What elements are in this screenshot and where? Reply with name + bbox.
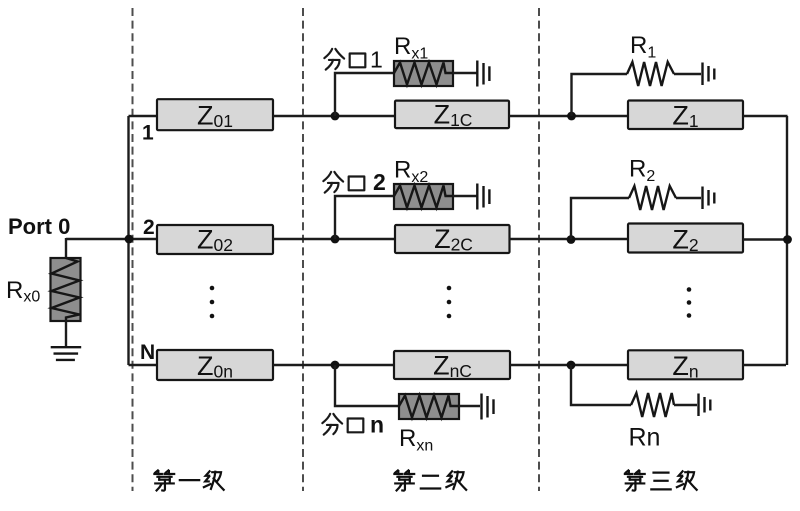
wire Z0n to node An	[273, 364, 394, 366]
ground GND Rxn	[482, 394, 494, 420]
impedance Z1C	[395, 100, 509, 131]
stage label 第一级	[154, 470, 223, 490]
svg-text:R2: R2	[629, 156, 655, 186]
resistor Rx0	[51, 258, 81, 321]
svg-text:n: n	[370, 412, 384, 438]
svg-text:Rn: Rn	[629, 424, 661, 452]
ellipsis column 2	[447, 286, 452, 319]
wire R1 to ground	[674, 73, 701, 75]
resistor Rx1	[394, 61, 453, 86]
node right bus row 2 junction	[783, 235, 792, 244]
dashed separator line 3	[538, 8, 540, 491]
left bus wire	[127, 116, 129, 365]
wire R2 to ground	[676, 197, 701, 199]
label 分口 n	[322, 412, 384, 438]
riser wire node A1 to Rx1	[335, 73, 394, 116]
wire Rx0 to ground	[65, 320, 67, 347]
label 分口 2	[323, 169, 385, 195]
node B2 junction	[567, 235, 576, 244]
resistor R1	[627, 62, 674, 86]
impedance Z2C	[395, 224, 510, 255]
wire Zn to right bus	[743, 364, 786, 366]
wire Rn to ground	[674, 404, 697, 406]
node Bn junction	[567, 361, 576, 370]
ground GND R1	[703, 63, 715, 86]
svg-text:N: N	[140, 341, 155, 364]
ground GND Rx2	[477, 184, 489, 210]
impedance Z02	[157, 225, 273, 256]
ellipsis column 1	[210, 286, 215, 319]
ground GND Rn	[699, 394, 711, 417]
impedance Z2	[628, 224, 743, 256]
svg-text:1: 1	[142, 122, 154, 145]
wire ZnC to node Bn	[510, 364, 628, 366]
ground GND Rx1	[477, 61, 489, 87]
node 2 junction	[125, 235, 134, 244]
ground GND0	[51, 347, 81, 360]
node A2 junction	[331, 235, 340, 244]
resistor Rxn	[399, 394, 459, 419]
impedance Z01	[157, 99, 273, 131]
wire Z01 to node A1	[273, 115, 395, 117]
impedance Zn	[628, 350, 743, 381]
wire Z2 to right bus	[743, 238, 788, 240]
riser wire node A2 to Rx2	[335, 196, 394, 239]
svg-text:Rx1: Rx1	[394, 33, 428, 63]
impedance ZnC	[394, 351, 510, 382]
wire bus to Z01	[129, 115, 158, 117]
riser wire node B1 to R1	[572, 74, 628, 116]
node An junction	[331, 361, 340, 370]
riser wire node B2 to R2	[571, 198, 629, 240]
wire Rx1 to ground	[453, 72, 477, 74]
right bus wire	[786, 116, 788, 365]
wire Z1C to node B1	[509, 115, 628, 117]
node A1 junction	[331, 112, 340, 121]
wire Rxn to ground	[459, 405, 480, 407]
impedance Z0n	[157, 350, 273, 381]
wire bus to Z0n	[129, 364, 158, 366]
drop wire node Bn to Rn	[571, 365, 631, 405]
svg-text:2: 2	[373, 169, 386, 195]
wire Rx2 to ground	[453, 195, 477, 197]
wire drop to Rx0	[65, 238, 67, 258]
dashed separator line 2	[302, 8, 304, 491]
svg-text:2: 2	[143, 216, 155, 239]
svg-text:Rxn: Rxn	[399, 425, 433, 455]
wire Z1 to right bus	[743, 115, 788, 117]
wire Port 0 input to Z02	[66, 238, 157, 240]
svg-text:Rx0: Rx0	[6, 277, 40, 306]
resistor Rx2	[394, 184, 453, 209]
impedance Z1	[628, 100, 743, 131]
svg-text:R1: R1	[630, 32, 656, 62]
svg-text:1: 1	[370, 47, 383, 73]
wire Z02 to node A2	[273, 238, 395, 240]
svg-text:Rx2: Rx2	[394, 157, 428, 187]
stage label 第三级	[625, 470, 697, 490]
node B1 junction	[567, 112, 576, 121]
ellipsis column 3	[687, 287, 692, 318]
ground GND R2	[703, 187, 715, 210]
dashed separator line 1	[132, 8, 134, 491]
resistor Rn	[631, 393, 674, 417]
svg-text:Port 0: Port 0	[8, 214, 70, 239]
stage label 第二级	[394, 470, 466, 490]
label 分口1	[324, 47, 382, 73]
resistor R2	[629, 186, 676, 210]
drop wire node An to Rxn	[335, 365, 399, 406]
wire Z2C to node B2	[509, 238, 628, 240]
